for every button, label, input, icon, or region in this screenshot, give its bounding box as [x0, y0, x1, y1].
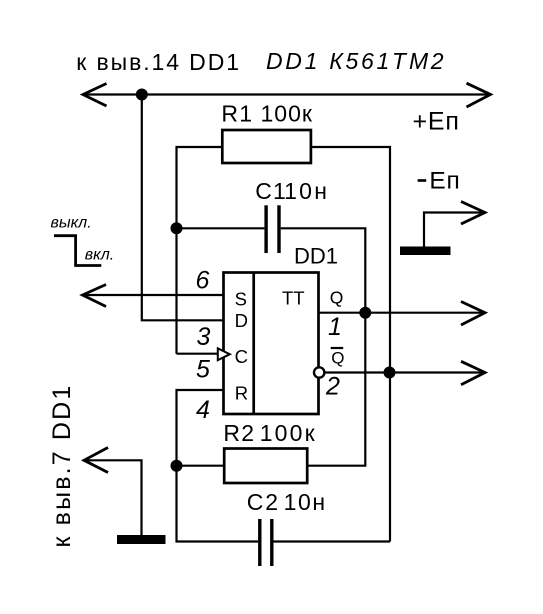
svg-text:6: 6: [196, 267, 210, 295]
wire bottom-left ground: [84, 460, 142, 535]
ground symbol -Eп (right) arrow: [461, 202, 485, 225]
junction dot C1 left: [171, 222, 183, 234]
svg-text:C2: C2: [247, 489, 280, 515]
flip-flop pin column divider: [252, 273, 255, 415]
svg-text:3: 3: [197, 323, 211, 351]
svg-text:Q: Q: [330, 288, 344, 308]
wire C1 right down to Q line and R2 right: [281, 228, 366, 465]
svg-text:1: 1: [328, 313, 342, 341]
wire R1 left down to C input node: [177, 147, 223, 354]
svg-text:R2: R2: [223, 420, 255, 446]
svg-text:Еп: Еп: [429, 168, 460, 195]
arrow S input: [83, 285, 107, 307]
svg-text:2: 2: [325, 373, 340, 401]
svg-text:C: C: [235, 346, 248, 367]
svg-text:D: D: [235, 310, 248, 331]
svg-text:+Еп: +Еп: [413, 108, 460, 136]
waveform step symbol: [54, 236, 101, 266]
dynamic input triangle at C: [218, 348, 230, 360]
wire R1 right down to Q-bar / C2: [311, 147, 390, 542]
svg-text:DD1: DD1: [294, 244, 338, 269]
svg-text:100к: 100к: [261, 101, 313, 127]
svg-text:вкл.: вкл.: [85, 247, 114, 264]
wire from top rail junction down to D input: [142, 95, 224, 321]
svg-text:R1: R1: [221, 101, 253, 127]
wire -Eп ground: [424, 213, 485, 248]
ground bar bottom-left: [117, 535, 166, 544]
resistor R1: [222, 130, 311, 163]
arrow Q output: [461, 302, 485, 326]
resistor R2: [224, 449, 307, 484]
svg-text:4: 4: [196, 396, 210, 424]
wire top +Eп rail: [83, 93, 490, 95]
arrow left end of top rail: [83, 84, 107, 107]
wire S input with arrow: [83, 294, 224, 296]
svg-text:выкл.: выкл.: [51, 215, 92, 232]
wire C1 left: [177, 227, 265, 229]
wire C input: [177, 353, 218, 355]
svg-text:C1: C1: [255, 178, 287, 204]
junction dot Q to C1: [359, 307, 371, 319]
wire C2 right to R1 right vertical: [274, 540, 391, 542]
capacitor C2: [258, 519, 261, 566]
svg-text:к выв.14 DD1: к выв.14 DD1: [76, 49, 241, 75]
junction dot R2 left node: [171, 460, 183, 472]
svg-text:R: R: [235, 383, 248, 404]
junction dot top rail to D: [136, 89, 148, 101]
flip-flop DD1 box: [224, 273, 319, 415]
wire R input down to R2/C2 node: [177, 390, 259, 542]
arrow Q-bar output: [461, 361, 485, 385]
node -Eп label: [418, 179, 427, 182]
svg-text:к выв.7 DD1: к выв.7 DD1: [48, 384, 76, 548]
svg-text:TT: TT: [282, 288, 305, 309]
ground symbol bottom-left arrow: [84, 448, 108, 473]
svg-text:5: 5: [196, 356, 210, 384]
svg-text:10н: 10н: [284, 178, 329, 204]
wire R2 left: [177, 465, 225, 467]
capacitor C1: [264, 205, 267, 253]
svg-text:Q: Q: [331, 348, 344, 367]
wire Q output with arrow: [319, 312, 486, 314]
svg-text:S: S: [235, 289, 247, 310]
svg-text:DD1 К561ТМ2: DD1 К561ТМ2: [266, 48, 446, 74]
arrow right end of top rail: [467, 83, 491, 107]
inversion bubble Q-bar: [314, 367, 324, 377]
wire Q-bar output with arrow: [324, 371, 485, 373]
ground bar -Eп: [400, 247, 451, 256]
junction dot Q-bar to R1: [384, 367, 396, 379]
svg-text:100к: 100к: [260, 420, 317, 446]
svg-text:10н: 10н: [284, 489, 327, 515]
